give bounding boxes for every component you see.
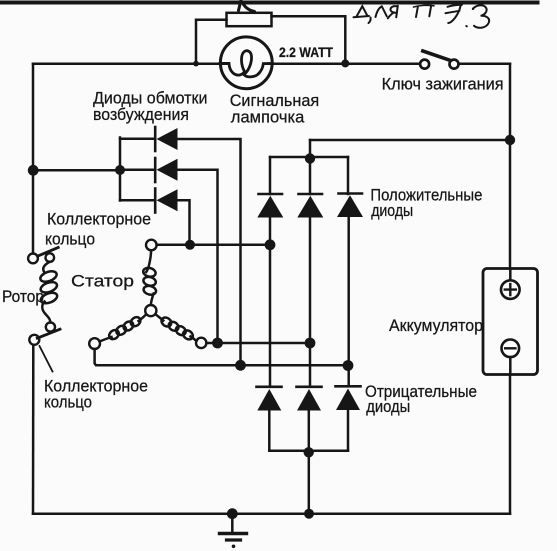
diode VD5 positive 2: [299, 193, 323, 196]
wire battery internal: [509, 269, 512, 375]
stator winding phase 3 coil right: [156, 315, 163, 321]
rotor brush lever bottom: [37, 329, 60, 338]
diode VD3 excitation bottom: [154, 189, 157, 213]
node diode VD1 feed junction: [235, 360, 246, 371]
svg-text:Ротор: Ротор: [2, 287, 44, 306]
node column3 junction: [343, 360, 354, 371]
handwritten R label: [239, 0, 255, 12]
wire column1 bottom: [268, 411, 271, 451]
svg-text:2.2 WATT: 2.2 WATT: [279, 44, 333, 60]
wire stator left output: [95, 349, 348, 365]
svg-text:Статор: Статор: [71, 272, 134, 291]
diode VD8 negative 2: [297, 385, 322, 388]
svg-text:кольцо: кольцо: [45, 230, 95, 249]
battery GB1: [483, 269, 538, 375]
diode VD2 excitation middle: [154, 158, 157, 182]
svg-text:лампочка: лампочка: [231, 108, 305, 127]
stator center node terminal: [145, 305, 156, 316]
wire switch to right bus: [459, 62, 510, 65]
wire diode VD1 output: [178, 139, 241, 365]
battery minus terminal: [502, 340, 520, 358]
wire column2 top: [309, 140, 312, 194]
wire column3 top: [347, 157, 350, 194]
wire column2 middle: [309, 218, 312, 387]
diode VD1 excitation top: [154, 127, 157, 151]
node stator top to rectifier column1 junction: [265, 239, 276, 250]
wire bottom rail: [33, 512, 510, 515]
svg-text:диоды: диоды: [366, 397, 410, 416]
node right bus / lamp feed junction: [505, 135, 515, 145]
diode VD7 negative 1: [257, 385, 282, 388]
node positive bus junction: [305, 153, 315, 163]
wire lamp feed line: [310, 139, 510, 142]
wire to diode VD3: [120, 199, 154, 202]
node resistor left junction: [193, 61, 199, 67]
node negative bus junction: [304, 447, 314, 457]
wire right bus upper: [509, 64, 512, 269]
leader line to bottom slip ring label: [40, 346, 53, 372]
wire to diode VD2: [120, 169, 154, 172]
node column2 junction: [305, 338, 316, 349]
wire diode VD3 output: [178, 200, 190, 245]
wire resistor left lead: [196, 20, 227, 64]
diode VD4 positive 1: [259, 193, 283, 196]
node bottom rail column2 junction: [304, 509, 314, 519]
rotor brush lever top: [38, 248, 59, 257]
svg-text:кольцо: кольцо: [44, 393, 92, 412]
svg-text:Аккумулятор: Аккумулятор: [389, 316, 483, 335]
wire column1 top: [269, 157, 272, 194]
wire feed to excitation diodes: [33, 169, 120, 172]
stator left terminal: [89, 338, 100, 349]
switch S1 ignition key: [420, 60, 429, 69]
top border rail: [0, 1, 538, 5]
handwritten note: для П 73: [354, 5, 490, 28]
wire column1 middle: [269, 218, 272, 387]
negative rectifier bus: [269, 449, 348, 452]
stator right terminal: [196, 338, 206, 348]
node excitation bus junction: [115, 165, 125, 175]
rotor slip ring bottom: [29, 335, 39, 345]
wire column3 middle: [347, 217, 350, 386]
wire column3 bottom: [347, 410, 350, 451]
diode VD6 positive 3: [339, 192, 363, 195]
lamp filament: [220, 51, 272, 77]
wire column2 bottom to rail: [308, 411, 311, 514]
wire left bus lower: [32, 345, 35, 514]
rotor winding coil: [43, 262, 49, 273]
rotor coil terminal bottom: [46, 322, 55, 331]
ground symbol: [231, 514, 234, 533]
node ground junction: [227, 508, 238, 519]
node diode VD2 feed junction: [212, 338, 223, 349]
wire main line lamp to switch: [265, 62, 421, 65]
battery plus terminal: [501, 280, 520, 299]
stator winding top terminal: [146, 240, 157, 251]
svg-text:Коллекторное: Коллекторное: [47, 210, 151, 229]
svg-text:диоды: диоды: [371, 201, 413, 220]
svg-text:Ключ зажигания: Ключ зажигания: [382, 75, 504, 94]
wire diode VD2 output: [178, 170, 218, 343]
wire right bus lower: [509, 375, 512, 514]
diode VD9 negative 3: [336, 385, 361, 388]
svg-text:возбуждения: возбуждения: [93, 105, 189, 124]
wire left bus upper: [32, 64, 35, 254]
rotor coil terminal top: [46, 253, 55, 262]
positive rectifier bus: [270, 156, 348, 159]
switch lever: [423, 51, 450, 60]
wire resistor right lead: [272, 16, 346, 63]
stator winding phase 2 coil left: [139, 315, 147, 322]
wire top main line left of lamp: [33, 62, 228, 65]
node left bus junction: [28, 165, 39, 176]
stator winding phase 1 coil: [146, 250, 151, 272]
resistor R: [227, 13, 272, 26]
node resistor right junction: [341, 59, 349, 67]
lamp L1 signal lamp: [220, 37, 272, 89]
wire stator top output: [157, 244, 270, 247]
wire to diode VD1: [120, 138, 154, 141]
excitation diode bus: [119, 138, 122, 201]
node diode VD3 to stator junction: [185, 240, 195, 250]
rotor slip ring top: [28, 254, 38, 264]
wire stator right output: [206, 342, 310, 345]
